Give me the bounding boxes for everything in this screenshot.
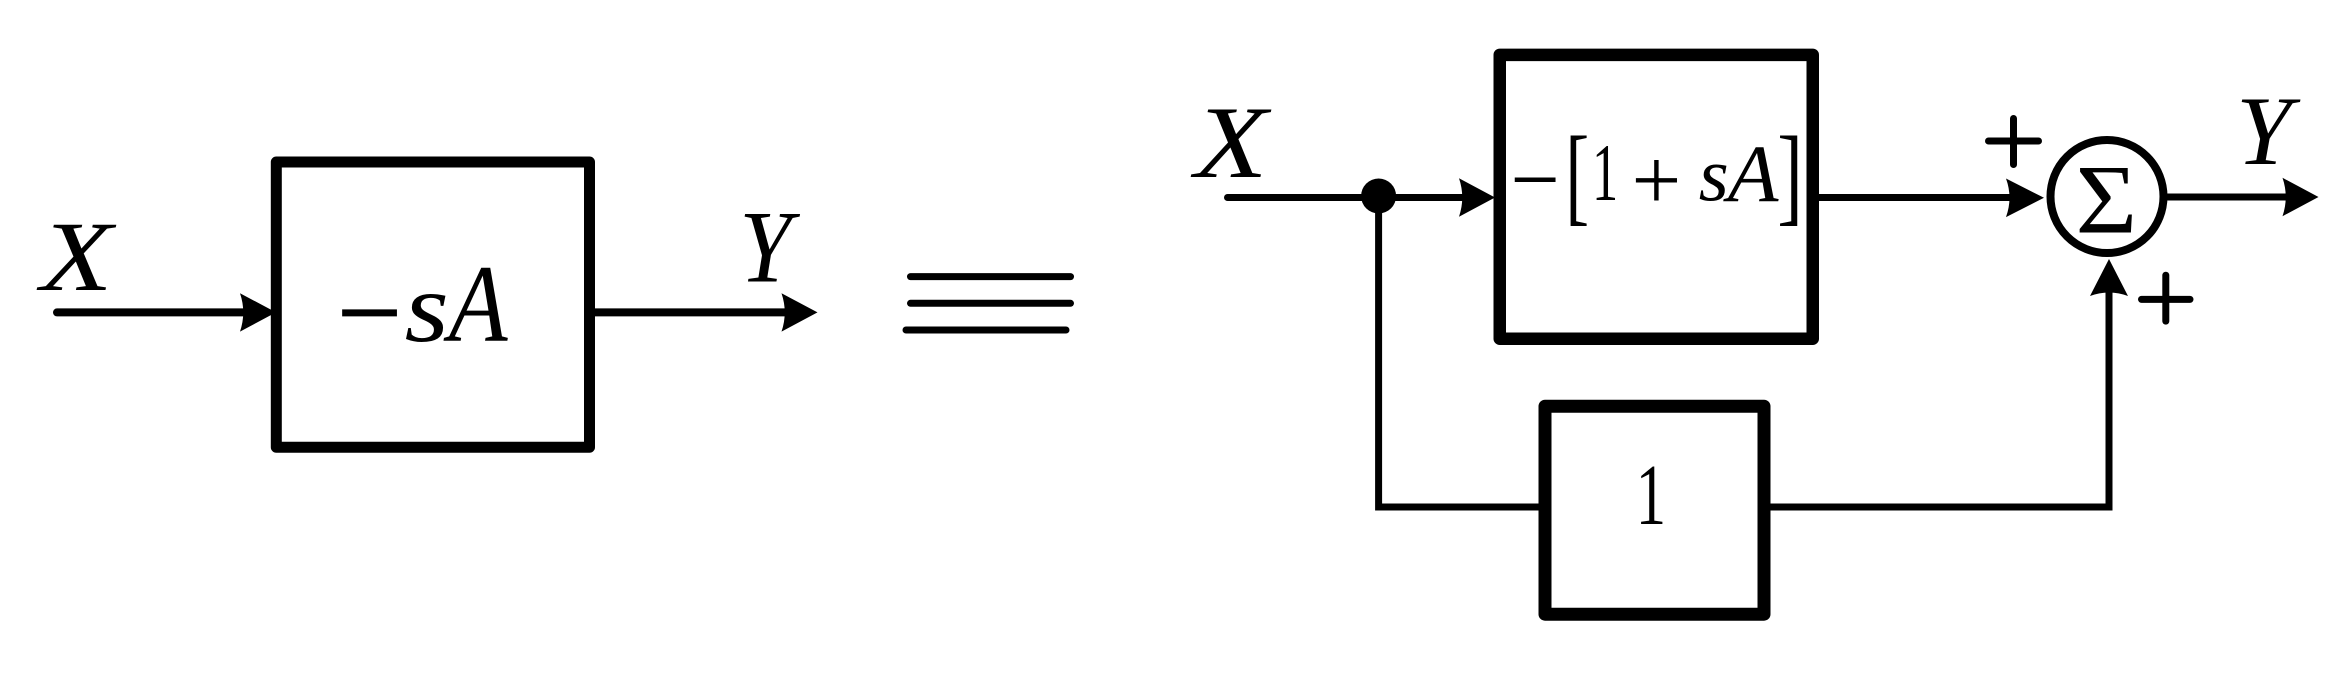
- wire: dot to block G2: [1379, 194, 1468, 201]
- svg-text:Y: Y: [739, 191, 800, 304]
- arrowhead into block G2: [1459, 178, 1495, 216]
- svg-text:+: +: [1632, 132, 1682, 228]
- svg-text:s: s: [1699, 133, 1729, 217]
- wire: feedback from dot down and right to block H: [1379, 198, 1542, 508]
- svg-text:1: 1: [1636, 447, 1666, 543]
- arrowhead up into summer: [2090, 259, 2128, 296]
- svg-text:]: ]: [1777, 113, 1803, 236]
- svg-text:A: A: [1723, 128, 1779, 218]
- arrowhead left output: [782, 293, 818, 331]
- wire: summer output: [2162, 194, 2292, 201]
- arrowhead into left block: [240, 293, 276, 331]
- svg-text:X: X: [36, 201, 117, 312]
- svg-text:s: s: [405, 253, 449, 363]
- svg-text:Σ: Σ: [2076, 146, 2138, 255]
- svg-text:−: −: [336, 235, 402, 390]
- wire: right input: [1228, 194, 1380, 201]
- arrowhead into summer: [2006, 179, 2044, 218]
- svg-text:[: [: [1565, 114, 1589, 236]
- svg-text:A: A: [443, 244, 508, 365]
- plus sign (bottom input of summer): [2142, 296, 2191, 303]
- wire: block G2 to summer: [1813, 194, 2012, 201]
- block H: 1: [1545, 406, 1764, 614]
- arrowhead summer output: [2283, 178, 2319, 216]
- block G1: -sA: [276, 162, 589, 447]
- plus sign (top input of summer): [1989, 138, 2039, 145]
- block G2: -[1+sA]: [1500, 55, 1813, 339]
- summer U1: circle: [2051, 140, 2164, 253]
- junction dot: [1361, 179, 1396, 214]
- svg-text:1: 1: [1592, 127, 1618, 217]
- svg-text:X: X: [1190, 86, 1271, 200]
- svg-text:−: −: [1510, 130, 1559, 229]
- equivalence symbol (triple bar): [911, 273, 1071, 280]
- wire: block H to below summer, then up: [1764, 266, 2109, 507]
- wire: left input: [57, 308, 250, 316]
- wire: left output: [590, 308, 791, 316]
